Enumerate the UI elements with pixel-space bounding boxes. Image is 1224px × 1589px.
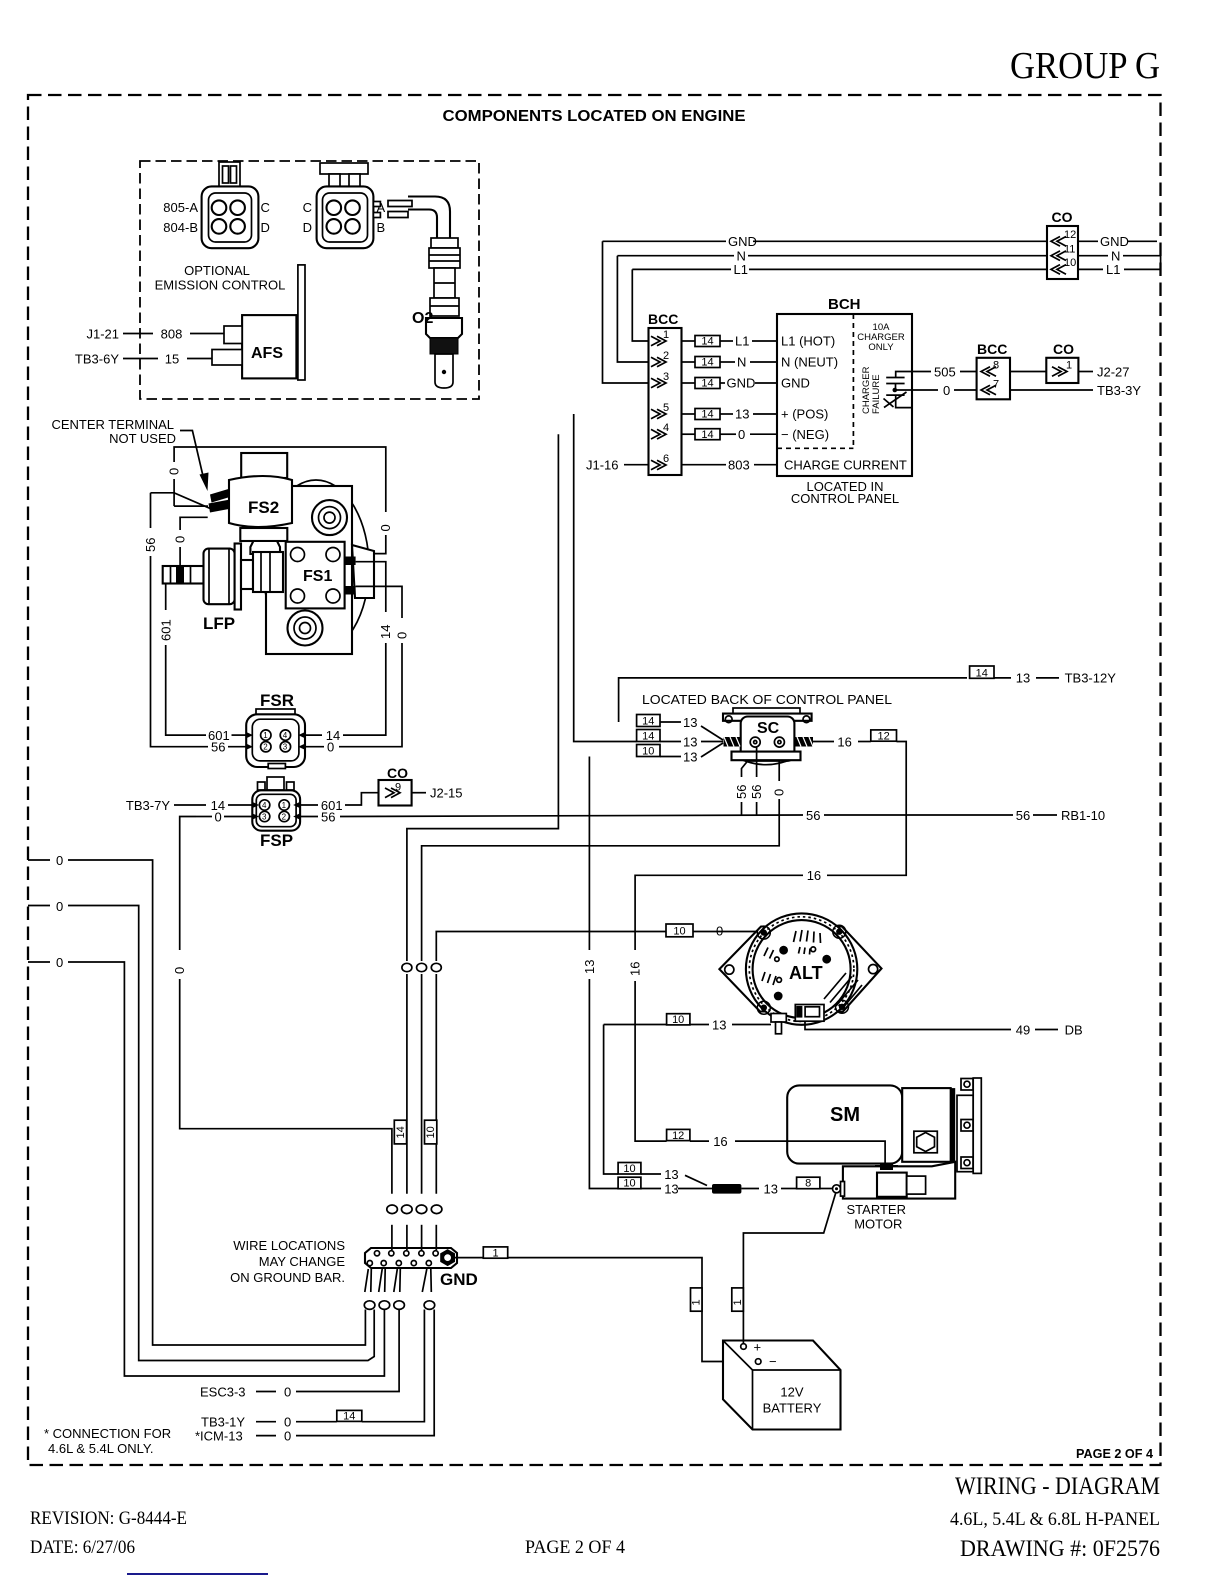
svg-text:CONTROL PANEL: CONTROL PANEL	[791, 491, 899, 506]
wire FSP-0 down-left riser	[180, 817, 196, 951]
svg-text:15: 15	[165, 352, 179, 367]
stub 0 #3	[28, 961, 50, 963]
BCH box	[777, 296, 912, 476]
svg-text:14: 14	[395, 1126, 407, 1138]
wire CO-1 to J2-27	[1078, 371, 1093, 373]
AFS sensor	[242, 315, 296, 378]
tag 1 rotated on minus wire	[691, 1288, 703, 1311]
FS1 body ellipse	[263, 480, 369, 654]
svg-text:13: 13	[712, 1017, 726, 1032]
svg-text:14: 14	[976, 667, 988, 679]
svg-text:13: 13	[683, 715, 697, 730]
svg-text:3: 3	[663, 371, 669, 383]
wire BCC-8 to CO-1	[1010, 371, 1046, 373]
svg-text:0: 0	[284, 1414, 291, 1429]
svg-text:OPTIONAL: OPTIONAL	[184, 263, 250, 278]
svg-text:GND: GND	[440, 1270, 478, 1289]
riser v4 from ALT 0	[436, 932, 762, 962]
connector BCC right (pins 8,7)	[977, 341, 1010, 399]
svg-text:14: 14	[701, 429, 713, 441]
svg-text:10: 10	[672, 1014, 684, 1026]
svg-text:B: B	[377, 220, 386, 235]
svg-text:+: +	[754, 1340, 762, 1355]
wire 13 row1 to splice	[618, 1163, 641, 1175]
svg-text:0: 0	[173, 536, 188, 543]
wire tag 14 row2	[682, 361, 696, 363]
svg-text:14: 14	[642, 731, 654, 743]
svg-text:TB3-7Y: TB3-7Y	[126, 798, 170, 813]
svg-text:FAILURE: FAILURE	[871, 374, 882, 414]
svg-text:0: 0	[943, 383, 950, 398]
svg-text:1: 1	[1066, 360, 1072, 372]
svg-text:13: 13	[664, 1167, 678, 1182]
svg-text:0: 0	[378, 524, 393, 531]
FS2 solenoid	[229, 453, 292, 566]
svg-text:0: 0	[56, 899, 63, 914]
wire FSP-56 long line to RB1-10	[300, 816, 318, 818]
wire riser BCC-3 GND	[603, 241, 649, 383]
svg-text:2: 2	[263, 743, 268, 752]
svg-text:0: 0	[327, 740, 334, 755]
wire border loop N-L1	[1160, 256, 1162, 270]
svg-text:16: 16	[713, 1134, 727, 1149]
svg-text:CO: CO	[1052, 209, 1073, 225]
FS1 top bolt	[312, 500, 347, 535]
svg-text:804-B: 804-B	[163, 220, 198, 235]
svg-text:8: 8	[805, 1178, 811, 1190]
svg-text:14: 14	[343, 1411, 355, 1423]
svg-text:9: 9	[395, 782, 401, 794]
wire L1 to right border	[1078, 268, 1103, 270]
svg-text:GROUP G: GROUP G	[1010, 45, 1160, 87]
svg-text:1: 1	[282, 801, 287, 810]
svg-text:SC: SC	[757, 720, 780, 737]
svg-text:49: 49	[1016, 1022, 1030, 1037]
svg-text:11: 11	[1064, 243, 1075, 255]
svg-text:FS1: FS1	[303, 568, 332, 585]
svg-text:BCH: BCH	[828, 296, 861, 313]
FSP connector	[252, 777, 300, 850]
SC tag boxes 14/14/10	[637, 715, 660, 727]
wire TB3-12Y 13	[619, 678, 967, 722]
tag 14 rotated on riser v2	[394, 1120, 406, 1144]
wire 0 from FS1 lower tab to FSR	[356, 586, 402, 618]
svg-text:1: 1	[263, 731, 268, 740]
svg-text:J1-21: J1-21	[86, 327, 119, 342]
SC coil wires 56 56 0	[742, 761, 749, 778]
tag 10 rotated on riser v4	[425, 1120, 437, 1144]
svg-text:13: 13	[582, 960, 597, 974]
svg-text:C: C	[303, 200, 312, 215]
svg-text:LOCATED BACK OF CONTROL PA: LOCATED BACK OF CONTROL PANEL	[642, 692, 892, 707]
wire 601 LFP to FSR	[165, 584, 167, 611]
AFS mounting plate	[298, 265, 305, 380]
svg-text:12: 12	[672, 1130, 684, 1142]
svg-text:0: 0	[738, 427, 745, 442]
svg-text:0: 0	[215, 809, 222, 824]
svg-text:TB3-1Y: TB3-1Y	[201, 1414, 245, 1429]
svg-text:13: 13	[664, 1181, 678, 1196]
svg-text:RB1-10: RB1-10	[1061, 808, 1105, 823]
svg-text:DB: DB	[1065, 1022, 1083, 1037]
svg-text:13: 13	[683, 734, 697, 749]
svg-text:0: 0	[56, 853, 63, 868]
svg-text:4: 4	[663, 422, 669, 434]
svg-text:14: 14	[378, 625, 393, 639]
svg-text:MOTOR: MOTOR	[854, 1216, 902, 1231]
svg-text:2: 2	[282, 812, 287, 821]
svg-text:CHARGE CURRENT: CHARGE CURRENT	[784, 458, 907, 473]
riser v3 from SC 0	[778, 747, 780, 781]
svg-text:0: 0	[284, 1384, 291, 1399]
splice black	[712, 1184, 741, 1194]
FS1 face plate	[286, 542, 345, 609]
svg-text:WIRING - DIAGRAM: WIRING - DIAGRAM	[955, 1473, 1160, 1500]
svg-text:805-A: 805-A	[163, 200, 198, 215]
svg-text:10: 10	[425, 1126, 437, 1138]
FS1 valve body	[266, 486, 352, 654]
svg-text:D: D	[261, 220, 270, 235]
FS1 right bracket	[352, 545, 374, 598]
svg-text:0: 0	[772, 789, 787, 796]
svg-text:DRAWING #: 0F2576: DRAWING #: 0F2576	[960, 1536, 1160, 1561]
svg-text:16: 16	[837, 734, 851, 749]
wire 13 riser from BCC-5	[574, 414, 637, 742]
wire 13 to ALT stud	[604, 1025, 619, 1175]
connector CO right (pin 1)	[1046, 341, 1078, 383]
wire 505 (contact to BCC-8)	[913, 371, 931, 373]
svg-text:10: 10	[1064, 257, 1076, 269]
svg-text:808: 808	[161, 327, 183, 342]
svg-text:3: 3	[262, 812, 267, 821]
svg-text:+ (POS): + (POS)	[781, 407, 828, 422]
svg-text:14: 14	[701, 357, 713, 369]
svg-text:14: 14	[701, 409, 713, 421]
svg-text:0: 0	[395, 632, 410, 639]
svg-text:56: 56	[143, 538, 158, 552]
svg-text:0: 0	[284, 1428, 291, 1443]
svg-text:4: 4	[283, 731, 288, 740]
LFP fuel pump	[163, 544, 283, 634]
svg-text:601: 601	[159, 619, 174, 641]
svg-text:803: 803	[728, 458, 750, 473]
svg-text:56: 56	[734, 785, 749, 799]
svg-text:BATTERY: BATTERY	[763, 1401, 822, 1416]
svg-text:56: 56	[321, 809, 335, 824]
svg-text:TB3-6Y: TB3-6Y	[75, 352, 119, 367]
FSR connector	[246, 691, 305, 769]
svg-text:12V: 12V	[780, 1385, 803, 1400]
connector CO-9	[379, 765, 412, 806]
FS1 terminal tabs	[345, 557, 356, 566]
svg-text:BCC: BCC	[648, 311, 678, 327]
stub 0 #2	[28, 905, 50, 907]
svg-text:2: 2	[663, 350, 669, 362]
svg-text:MAY CHANGE: MAY CHANGE	[259, 1254, 346, 1269]
svg-text:8: 8	[993, 360, 999, 372]
svg-text:1: 1	[691, 1299, 703, 1305]
svg-text:4.6L, 5.4L & 6.8L H-PANEL: 4.6L, 5.4L & 6.8L H-PANEL	[950, 1509, 1160, 1530]
stub 0 #1	[28, 859, 50, 861]
FS1 bottom bolt	[288, 611, 323, 646]
svg-text:C: C	[261, 200, 270, 215]
svg-text:FSP: FSP	[260, 831, 293, 850]
wire tag 14 row4	[682, 433, 696, 435]
wire 0 FS2 top lead	[174, 505, 208, 507]
svg-text:PAGE 2 OF 4: PAGE 2 OF 4	[525, 1537, 625, 1558]
wire riser BCC-2 N	[617, 256, 648, 362]
svg-text:N (NEUT): N (NEUT)	[781, 355, 838, 370]
svg-text:AFS: AFS	[251, 345, 283, 362]
svg-text:LFP: LFP	[203, 614, 235, 633]
connector BCC (pins 1-6)	[648, 311, 682, 475]
svg-text:1: 1	[663, 329, 669, 341]
svg-text:PAGE 2 OF 4: PAGE 2 OF 4	[1076, 1447, 1153, 1461]
svg-text:GND: GND	[1100, 234, 1129, 249]
svg-text:4: 4	[262, 801, 267, 810]
black wire bundle into FS2	[210, 489, 232, 503]
connector J-left (805/804)	[163, 162, 270, 248]
svg-text:13: 13	[683, 749, 697, 764]
FSP right wire 601 to CO-9	[300, 804, 318, 806]
svg-text:O2: O2	[412, 310, 433, 327]
splice ovals below ground bar	[364, 1301, 375, 1310]
svg-text:10: 10	[623, 1178, 635, 1190]
svg-text:3: 3	[283, 743, 288, 752]
svg-text:CO: CO	[1053, 341, 1074, 357]
svg-text:5: 5	[663, 402, 669, 414]
wire 0 (contact to BCC-7)	[895, 389, 938, 391]
svg-text:7: 7	[993, 379, 999, 391]
svg-text:SM: SM	[830, 1104, 860, 1126]
wire battery plus riser with tag 1	[743, 1192, 836, 1344]
wire riser BCC-1 L1	[632, 269, 648, 341]
svg-text:L1: L1	[734, 262, 748, 277]
riser v2 from BCH NEG	[407, 434, 559, 961]
ground bar	[365, 1248, 457, 1268]
SC 13 wire labels and leads	[660, 721, 681, 723]
SC contactor	[723, 708, 813, 765]
svg-text:16: 16	[628, 962, 643, 976]
strain wires under bar	[365, 1269, 372, 1292]
svg-text:NOT USED: NOT USED	[109, 431, 176, 446]
svg-text:6: 6	[663, 453, 669, 465]
svg-text:14: 14	[701, 378, 713, 390]
svg-text:ON GROUND BAR.: ON GROUND BAR.	[230, 1270, 345, 1285]
svg-text:10: 10	[642, 746, 654, 758]
svg-text:CO: CO	[387, 765, 408, 781]
svg-text:EMISSION CONTROL: EMISSION CONTROL	[155, 278, 286, 293]
svg-text:56: 56	[749, 785, 764, 799]
svg-text:56: 56	[1016, 808, 1030, 823]
wire bar to battery minus with tag 1	[455, 1257, 483, 1259]
svg-text:− (NEG): − (NEG)	[781, 427, 829, 442]
wire L1 horizontal (BCC-1 to CO-10)	[632, 268, 731, 270]
ground bar upper risers	[391, 1225, 393, 1250]
leader arrow	[180, 431, 203, 477]
svg-text:10: 10	[673, 926, 685, 938]
wire 56 vertical to FSR	[150, 493, 152, 528]
svg-text:0: 0	[167, 468, 182, 475]
svg-text:10: 10	[623, 1163, 635, 1175]
wire N horizontal (BCC-2 to CO-11)	[617, 255, 734, 257]
svg-text:FSR: FSR	[260, 691, 294, 710]
svg-text:4.6L & 5.4L ONLY.: 4.6L & 5.4L ONLY.	[48, 1441, 154, 1456]
connector O2-side (A/B)	[303, 163, 386, 248]
svg-text:56: 56	[211, 740, 225, 755]
svg-text:12: 12	[877, 730, 889, 742]
svg-text:14: 14	[701, 336, 713, 348]
svg-text:*ICM-13: *ICM-13	[195, 1428, 243, 1443]
wire BCC-7 to TB3-3Y	[1010, 389, 1093, 391]
svg-text:TB3-12Y: TB3-12Y	[1065, 671, 1117, 686]
wire 56 FS2 lead	[151, 493, 212, 509]
wire N to right border	[1078, 255, 1108, 257]
svg-text:D: D	[303, 220, 312, 235]
svg-text:505: 505	[934, 364, 956, 379]
svg-text:TB3-3Y: TB3-3Y	[1097, 383, 1141, 398]
wire GND to right border	[1078, 240, 1098, 242]
svg-text:0: 0	[716, 923, 723, 938]
svg-text:12: 12	[1064, 229, 1076, 241]
footer blue underline	[127, 1573, 268, 1575]
svg-text:56: 56	[806, 808, 820, 823]
wire ALT 49 DB	[805, 1021, 1011, 1029]
wire tag 14 row3	[682, 382, 696, 384]
svg-text:L1 (HOT): L1 (HOT)	[781, 334, 835, 349]
svg-text:COMPONENTS LOCATED ON ENGINE: COMPONENTS LOCATED ON ENGINE	[443, 108, 746, 125]
O2 sensor body	[408, 197, 462, 389]
O2 sensor leads	[373, 202, 380, 207]
svg-text:−: −	[769, 1354, 777, 1369]
svg-text:GND: GND	[728, 234, 757, 249]
wire 13 riser to SM row2	[588, 757, 590, 951]
wire splice to solenoid 13 with tag 8	[741, 1188, 759, 1190]
svg-text:13: 13	[735, 407, 749, 422]
wire 0 FS2 bottom lead to LFP	[180, 517, 208, 530]
svg-text:N: N	[737, 355, 746, 370]
wire tag 14 row1	[682, 340, 696, 342]
wire tag 14 row5	[682, 413, 696, 415]
optional emission control dashed box	[140, 161, 479, 399]
wire CO-9 to J2-15	[412, 792, 426, 794]
svg-text:WIRE LOCATIONS: WIRE LOCATIONS	[233, 1238, 345, 1253]
svg-text:1: 1	[492, 1247, 498, 1259]
svg-text:14: 14	[642, 716, 654, 728]
svg-text:ESC3-3: ESC3-3	[200, 1384, 246, 1399]
wire 0 top bracket (FS2 top to FS1 tab)	[173, 479, 175, 506]
battery 12V	[723, 1340, 841, 1430]
svg-text:* CONNECTION FOR: * CONNECTION FOR	[44, 1426, 171, 1441]
svg-text:ALT: ALT	[789, 963, 823, 983]
svg-text:J2-27: J2-27	[1097, 364, 1130, 379]
outer dashed drawing border	[28, 95, 1161, 1465]
charger failure contact symbol	[884, 372, 914, 408]
svg-text:13: 13	[1016, 671, 1030, 686]
svg-text:BCC: BCC	[977, 341, 1007, 357]
svg-text:0: 0	[56, 955, 63, 970]
svg-text:J1-16: J1-16	[586, 458, 619, 473]
tag 10 and 0 label on ALT wire	[666, 924, 693, 937]
svg-text:L1: L1	[1106, 262, 1120, 277]
wire 16 into solenoid	[690, 1141, 885, 1162]
svg-text:STARTER: STARTER	[847, 1202, 906, 1217]
wire GND horizontal (BCC-3 to CO-12)	[603, 240, 727, 242]
svg-text:13: 13	[764, 1181, 778, 1196]
svg-text:FS2: FS2	[248, 498, 279, 517]
svg-text:GND: GND	[781, 376, 810, 391]
svg-text:GND: GND	[727, 376, 756, 391]
svg-text:J2-15: J2-15	[430, 786, 463, 801]
svg-text:16: 16	[807, 868, 821, 883]
splice ovals above ground bar	[387, 1205, 398, 1214]
svg-text:DATE: 6/27/06: DATE: 6/27/06	[30, 1537, 135, 1558]
connector CO top (pins 12,11,10)	[1047, 209, 1078, 279]
svg-text:ONLY: ONLY	[868, 342, 894, 353]
wire 14 from FS1 upper tab to FSR	[356, 562, 386, 612]
svg-text:0: 0	[172, 967, 187, 974]
svg-text:REVISION: G-8444-E: REVISION: G-8444-E	[30, 1508, 187, 1529]
svg-text:L1: L1	[735, 334, 749, 349]
wire 13 row2 to splice	[618, 1177, 641, 1189]
svg-text:CENTER TERMINAL: CENTER TERMINAL	[51, 417, 174, 432]
svg-text:1: 1	[732, 1299, 744, 1305]
wire SC 16 to 12-tag	[813, 741, 834, 743]
